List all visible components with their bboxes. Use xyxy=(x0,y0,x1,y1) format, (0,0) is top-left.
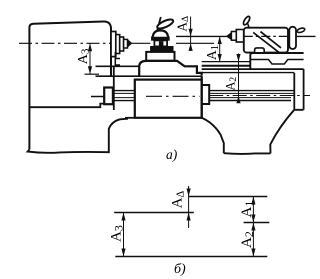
tailstock axis line right of body xyxy=(288,35,316,37)
diagram A1 arrows xyxy=(251,197,255,223)
diagram mid-right line xyxy=(244,222,270,224)
apron right edge down to bed bottom xyxy=(201,76,203,118)
bed left raised step xyxy=(115,52,120,65)
svg-text:А3: А3 xyxy=(109,225,126,242)
carriage saddle xyxy=(139,61,202,76)
right leg left edge xyxy=(202,118,224,153)
dimension A2 line xyxy=(238,54,240,104)
dimension A1 arrows xyxy=(218,36,222,61)
diagram A-delta dimension line xyxy=(188,186,190,228)
dimension A1 line xyxy=(219,36,221,61)
svg-text:АΔ: АΔ xyxy=(170,191,187,209)
tool post mid box xyxy=(154,40,167,46)
bed left edge vertical xyxy=(113,66,115,110)
dimension A3 tick xyxy=(85,73,100,75)
dimension A-delta arrows xyxy=(189,29,193,51)
carriage compound slide box xyxy=(146,52,174,61)
bed way line 1 right of carriage xyxy=(202,61,250,63)
tailstock axis line (upper) xyxy=(176,35,244,37)
dimension A2 arrows xyxy=(236,54,240,103)
lead screw left segment inner lines xyxy=(113,93,135,97)
spindle nose step 3 xyxy=(120,37,124,51)
tool post inner black square xyxy=(159,41,164,46)
diagram A3 arrows xyxy=(121,213,125,257)
svg-text:а): а) xyxy=(166,147,178,162)
quill step small xyxy=(231,32,236,41)
bed way top line left of carriage xyxy=(96,65,140,67)
tailstock body xyxy=(244,28,288,53)
headstock spindle axis dash-dot xyxy=(19,42,111,44)
bed line 4 xyxy=(202,72,295,74)
svg-text:б): б) xyxy=(174,262,186,277)
spindle nose step 2 xyxy=(116,35,120,54)
tool post handle loop xyxy=(156,18,174,31)
quill cone tip xyxy=(227,33,232,40)
diagram A3 dimension line xyxy=(123,213,125,257)
tailstock base top xyxy=(250,53,303,69)
headstock body xyxy=(29,21,111,149)
lead screw right axis dash-dot xyxy=(209,95,310,97)
bed bottom line left of apron xyxy=(125,117,135,119)
tailstock body diagonal 2 xyxy=(261,32,282,48)
spindle nose step 1 flange xyxy=(111,32,116,57)
tailstock body diagonal 1 xyxy=(253,32,279,52)
lead screw left bracket xyxy=(104,88,113,105)
svg-text:А1: А1 xyxy=(239,201,256,218)
lead screw right segment outer lines xyxy=(209,91,294,101)
dimension A3 line xyxy=(89,43,91,74)
spindle center cone xyxy=(128,40,132,47)
tool post black band xyxy=(151,37,169,41)
dimension A-delta line xyxy=(190,17,192,51)
right leg right edge xyxy=(270,110,294,154)
diagram bottom line xyxy=(115,256,267,258)
tailstock handwheel xyxy=(289,27,296,49)
apron box xyxy=(135,80,202,118)
tailstock clamp boss xyxy=(255,48,265,53)
tailstock crank handle xyxy=(297,27,306,33)
svg-text:А1: А1 xyxy=(204,45,221,60)
headstock axis line right of spindle tip xyxy=(132,42,151,44)
lead screw left stub xyxy=(91,96,104,98)
lead screw right flange xyxy=(202,85,210,104)
svg-text:А2: А2 xyxy=(223,77,239,91)
tool post dome cap xyxy=(153,30,168,36)
bed way line 2 right of carriage xyxy=(202,65,250,67)
right leg bottom xyxy=(224,152,271,155)
tool post base bar xyxy=(151,46,174,52)
lead screw axis dash-dot across apron xyxy=(146,95,200,97)
svg-text:АΔ: АΔ xyxy=(174,16,191,32)
bed right end verticals xyxy=(294,69,303,110)
headstock axis line segment right of tool post xyxy=(176,42,214,44)
spindle nose step 4 xyxy=(124,39,128,48)
svg-text:А3: А3 xyxy=(76,48,92,64)
diagram mid-left line xyxy=(114,212,194,214)
lead screw right segment inner lines xyxy=(209,93,294,97)
lead screw left segment outer lines xyxy=(113,91,135,101)
tailstock base way notch xyxy=(250,60,303,65)
diagram top line xyxy=(189,196,268,198)
svg-text:А2: А2 xyxy=(239,231,256,248)
left leg xyxy=(28,119,128,153)
diagram A1-A2 dimension line xyxy=(252,197,254,257)
tailstock clamp lever loop xyxy=(242,15,251,25)
bed front lower line under carriage xyxy=(96,75,202,77)
tailstock clamp lever stem xyxy=(248,24,250,29)
dimension A3 arrows xyxy=(88,43,92,74)
bed line 3 (base bottom) xyxy=(202,68,304,70)
tailstock axis dash-dot through body xyxy=(244,35,288,37)
diagram A2 arrows xyxy=(251,223,255,257)
diagram A-delta arrows xyxy=(187,189,191,221)
quill step large xyxy=(236,30,244,43)
tool post handle stem xyxy=(157,17,161,31)
headstock bottom edge with step xyxy=(29,104,106,108)
